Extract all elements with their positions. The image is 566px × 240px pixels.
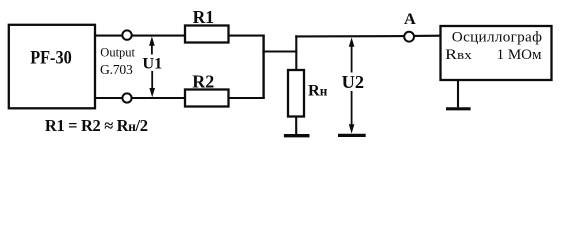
ground bar under Rн [284, 134, 310, 137]
load resistor Rн [288, 70, 304, 117]
oscilloscope box [441, 26, 552, 80]
svg-text:Output: Output [100, 45, 135, 59]
junction vertical wire [262, 35, 264, 99]
wire oscilloscope to ground [457, 80, 459, 107]
jog wire junction to riser [262, 50, 297, 52]
wire top terminal to R1 [132, 35, 185, 37]
voltage arrow U1 [149, 36, 155, 97]
svg-text:R2: R2 [192, 71, 214, 91]
main wire to node A [295, 35, 404, 37]
svg-text:R1: R1 [193, 7, 215, 27]
node A terminal [404, 32, 414, 42]
svg-text:PF-30: PF-30 [30, 49, 71, 69]
wire Rн to ground [295, 117, 297, 135]
svg-text:U1: U1 [142, 54, 162, 73]
terminal bottom output [122, 93, 131, 102]
svg-text:Rвх: Rвх [445, 47, 472, 63]
svg-text:G.703: G.703 [100, 62, 133, 77]
wire top output [95, 35, 122, 37]
device PF-30 box [9, 25, 95, 109]
svg-text:Осциллограф: Осциллограф [452, 29, 542, 46]
svg-text:A: A [404, 9, 416, 28]
svg-text:1 МОм: 1 МОм [497, 47, 542, 63]
svg-text:R1 = R2 ≈ Rн/2: R1 = R2 ≈ Rн/2 [45, 116, 148, 135]
svg-text:U2: U2 [342, 72, 364, 92]
wire R1 to junction [229, 35, 265, 37]
wire node A to oscilloscope [414, 35, 441, 37]
svg-text:Rн: Rн [308, 80, 328, 99]
wire bottom output [95, 97, 122, 99]
terminal top output [122, 30, 131, 39]
wire R2 to junction [229, 97, 265, 99]
resistor R1 [185, 26, 229, 43]
ground reference bar under U2 [338, 134, 366, 137]
voltage arrow U2 [349, 37, 355, 133]
wire bottom terminal to R2 [132, 97, 185, 99]
ground bar under oscilloscope [446, 107, 471, 110]
resistor R2 [185, 90, 229, 107]
riser wire to main line [295, 35, 297, 71]
